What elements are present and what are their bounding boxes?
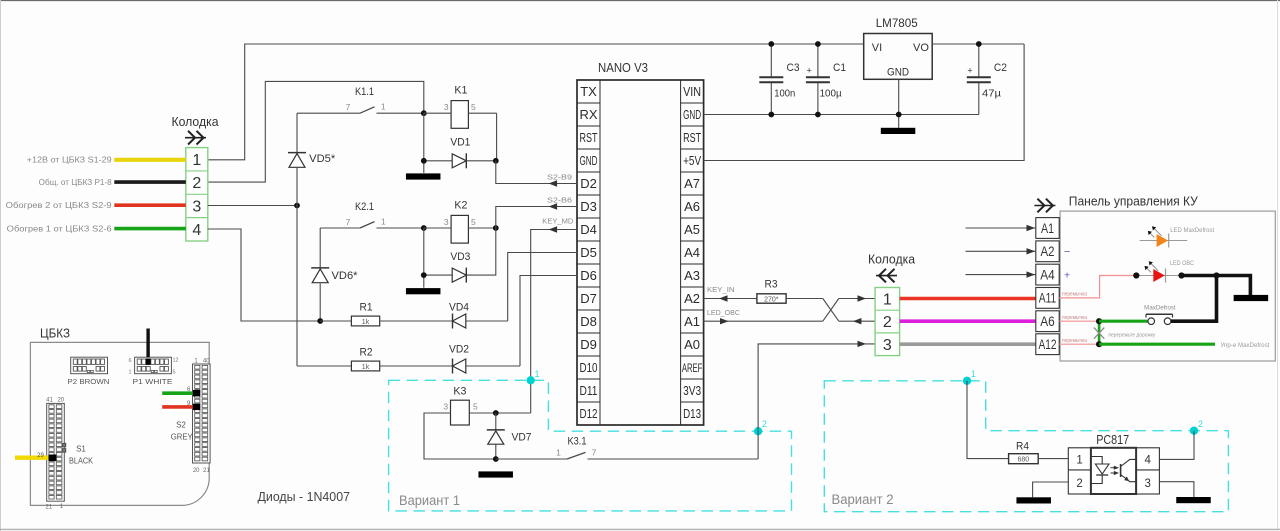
svg-text:3V3: 3V3: [683, 383, 701, 398]
svg-text:A11: A11: [1039, 290, 1057, 306]
wire grey pin3 to A12: [900, 342, 1036, 346]
svg-text:2: 2: [1076, 478, 1082, 490]
svg-text:3: 3: [444, 102, 449, 112]
svg-text:7: 7: [346, 217, 351, 227]
svg-text:Упр-е MaxDefrost: Упр-е MaxDefrost: [1220, 343, 1269, 349]
label plus at A4: [1064, 269, 1070, 281]
svg-text:K3.1: K3.1: [568, 436, 587, 448]
svg-text:Диоды - 1N4007: Диоды - 1N4007: [258, 490, 351, 504]
svg-text:Вариант 1: Вариант 1: [399, 493, 460, 508]
svg-text:4: 4: [1144, 454, 1151, 466]
svg-text:LED OBC: LED OBC: [1170, 261, 1195, 267]
svg-text:перемычка: перемычка: [1062, 315, 1087, 321]
svg-text:PC817: PC817: [1096, 433, 1129, 447]
svg-text:R1: R1: [360, 301, 373, 313]
svg-text:D7: D7: [580, 291, 597, 306]
wire R2 row: [297, 365, 351, 367]
svg-text:GREY: GREY: [171, 433, 194, 442]
wire black switch to LED node: [1171, 276, 1217, 322]
svg-text:Панель управления КУ: Панель управления КУ: [1069, 194, 1199, 209]
connector X1 Kolodka (left): [172, 114, 220, 241]
diode VD4: [449, 301, 508, 328]
svg-text:270*: 270*: [764, 296, 779, 303]
wire PC817 pin2 to ground: [1033, 482, 1069, 497]
svg-text:Колодка: Колодка: [172, 114, 220, 129]
connector S1 BLACK: [45, 398, 93, 511]
dashed box Variant 2: [824, 381, 1228, 512]
relay coil K1: [424, 85, 497, 129]
svg-text:680: 680: [1017, 457, 1029, 464]
ground in panel: [1234, 295, 1269, 301]
svg-text:D12: D12: [580, 406, 598, 421]
svg-text:A2: A2: [684, 291, 700, 306]
wire green A6 to switch: [1099, 320, 1148, 323]
connector S2 GREY: [171, 358, 211, 474]
connector P2 BROWN: [68, 357, 110, 386]
variant node 1 (right): [963, 369, 976, 385]
label Obsh wire: [39, 178, 113, 187]
node K1 coil top junction: [421, 110, 427, 116]
ground under VD7: [478, 471, 513, 477]
svg-text:VIN: VIN: [683, 84, 701, 99]
svg-text:1: 1: [1076, 454, 1082, 466]
svg-text:5: 5: [173, 370, 176, 376]
svg-text:1: 1: [971, 369, 976, 379]
TsBKE box: [30, 342, 209, 505]
svg-text:1: 1: [534, 369, 539, 379]
node A6 jumper junction: [1096, 318, 1102, 324]
wire red pin1 to A11: [900, 297, 1036, 301]
svg-text:Обогрев 1 от ЦБКЗ S2-6: Обогрев 1 от ЦБКЗ S2-6: [7, 224, 113, 233]
svg-text:C1: C1: [833, 62, 846, 74]
optocoupler U3 PC817: [1068, 433, 1159, 494]
wire pin3 to VD5 node: [208, 205, 297, 207]
svg-text:VD5*: VD5*: [309, 153, 336, 165]
svg-text:D9: D9: [580, 337, 597, 352]
diode VD6*: [311, 268, 358, 283]
svg-text:VD4: VD4: [449, 301, 469, 313]
svg-text:ЦБКЗ: ЦБКЗ: [40, 326, 70, 341]
switch contact K2.1: [320, 201, 424, 228]
wire D5 net: [508, 253, 577, 322]
capacitor C3 100n: [759, 44, 799, 115]
svg-text:R3: R3: [765, 278, 778, 290]
wire cross to pin2: [839, 318, 875, 324]
diode VD1: [424, 137, 497, 169]
svg-text:BLACK: BLACK: [69, 457, 94, 466]
svg-text:Колодка: Колодка: [868, 252, 916, 267]
wire K1 pin5 down: [496, 113, 498, 161]
svg-text:перемычка: перемычка: [1062, 292, 1087, 298]
harness chevron right Kolodka: [876, 269, 897, 283]
wire LM7805 GND lead: [898, 79, 900, 128]
svg-text:D10: D10: [580, 360, 598, 375]
wire K1 gnd vertical: [423, 113, 425, 173]
svg-text:1: 1: [556, 448, 561, 458]
node K2 coil top junction: [421, 225, 427, 231]
svg-text:S1: S1: [76, 445, 86, 454]
wire arrow into A2: [966, 248, 1036, 254]
wire D2 net S2-B9: [496, 161, 577, 187]
svg-text:2: 2: [883, 314, 892, 331]
ground under PC817 pin3: [1176, 497, 1211, 503]
wire jumper A6: [1059, 320, 1099, 322]
svg-text:A5: A5: [684, 222, 700, 237]
wire black common: [114, 180, 186, 184]
svg-text:KEY_IN: KEY_IN: [707, 285, 735, 294]
svg-text:4: 4: [192, 222, 201, 239]
svg-text:LED MaxDefrost: LED MaxDefrost: [1170, 228, 1214, 234]
svg-text:3: 3: [192, 199, 201, 216]
wire red Obogrev2: [114, 203, 186, 207]
svg-text:3: 3: [883, 337, 892, 354]
svg-text:D4: D4: [580, 222, 597, 237]
label peremychka A12: [1062, 338, 1087, 344]
svg-text:D8: D8: [580, 314, 597, 329]
relay coil K3: [443, 386, 530, 425]
dashed box Variant 1: [389, 380, 792, 511]
wire green link A6-A12: [1098, 321, 1101, 344]
wire yellow to S1 pin29: [15, 453, 57, 461]
svg-text:C2: C2: [994, 62, 1007, 74]
svg-text:K2: K2: [454, 200, 467, 212]
node R1/VD6 junction: [317, 318, 323, 324]
svg-text:+: +: [967, 66, 972, 76]
svg-text:VD7: VD7: [512, 432, 532, 444]
svg-text:20: 20: [193, 468, 200, 474]
svg-text:S2-B9: S2-B9: [547, 173, 572, 182]
svg-text:A1: A1: [1041, 220, 1054, 236]
diode VD5*: [288, 153, 336, 168]
svg-text:P2 BROWN: P2 BROWN: [68, 377, 110, 386]
svg-text:20: 20: [57, 398, 64, 404]
ground under K1: [406, 173, 441, 179]
svg-text:5: 5: [473, 402, 478, 412]
variant node 2 (left): [754, 419, 767, 435]
wire +12V from Kolodka pin1 to LM7805 VI: [208, 44, 864, 160]
LED MaxDefrost indicator: [1140, 226, 1215, 247]
wire GND rail NANO to caps: [704, 114, 979, 116]
svg-text:A4: A4: [684, 245, 700, 260]
svg-text:A6: A6: [1040, 313, 1055, 329]
svg-text:3: 3: [444, 217, 449, 227]
svg-text:+: +: [1064, 269, 1070, 281]
svg-text:21: 21: [45, 505, 52, 511]
diode VD3: [424, 251, 471, 283]
svg-text:LM7805: LM7805: [876, 16, 918, 30]
wire pin4 to R1 row: [208, 229, 320, 321]
label +12V wire: [27, 156, 113, 165]
microcontroller U1 NANO V3: [577, 60, 704, 425]
wire cross to pin1: [839, 295, 875, 301]
svg-text:Вариант 2: Вариант 2: [832, 492, 894, 507]
svg-text:K1.1: K1.1: [355, 86, 374, 98]
cut mark X: [1094, 328, 1156, 339]
svg-text:перережьте дорожку: перережьте дорожку: [1108, 332, 1155, 338]
node K2 pin5 junction: [493, 225, 499, 231]
wire arrow into A4: [966, 271, 1036, 277]
svg-text:A4: A4: [1040, 266, 1055, 282]
svg-text:VD2: VD2: [449, 344, 469, 356]
connector X2 Kolodka (right): [868, 252, 916, 356]
wire jumper A12: [1059, 343, 1099, 345]
svg-text:S2-B6: S2-B6: [547, 196, 572, 205]
node LED OBC anode: [1133, 272, 1139, 278]
svg-text:A0: A0: [684, 337, 700, 352]
svg-text:VO: VO: [913, 42, 929, 54]
node VD1 anode: [421, 158, 427, 164]
svg-text:MaxDefrost: MaxDefrost: [1144, 306, 1176, 312]
svg-text:1: 1: [128, 370, 131, 376]
svg-text:40: 40: [203, 358, 210, 364]
svg-text:VD3: VD3: [450, 251, 470, 263]
svg-text:100n: 100n: [774, 89, 795, 100]
svg-text:2: 2: [1198, 419, 1203, 429]
svg-text:1: 1: [381, 102, 386, 112]
ground under PC817 pin2: [1016, 497, 1050, 503]
svg-text:+12В от ЦБКЗ S1-29: +12В от ЦБКЗ S1-29: [27, 156, 113, 165]
resistor R3: [757, 278, 823, 303]
svg-text:21: 21: [203, 468, 210, 474]
label peremychka A6: [1062, 315, 1087, 321]
svg-text:KEY_MD: KEY_MD: [542, 216, 574, 225]
svg-text:A6: A6: [684, 199, 700, 214]
svg-text:A3: A3: [684, 268, 700, 283]
wire yellow +12V: [114, 158, 186, 162]
switch contact K1.1: [297, 86, 424, 113]
svg-text:+: +: [807, 66, 812, 76]
svg-text:7: 7: [592, 448, 597, 458]
svg-text:41: 41: [46, 398, 53, 404]
svg-text:VD1: VD1: [450, 137, 470, 149]
node A12 jumper junction: [1096, 341, 1102, 347]
wire green Obogrev1: [114, 227, 186, 231]
svg-text:D11: D11: [580, 383, 598, 398]
node K3 pin5 junction: [493, 410, 499, 416]
wire magenta pin2 to A6: [900, 319, 1036, 323]
svg-text:100µ: 100µ: [820, 89, 842, 100]
label Obogrev2 wire: [6, 201, 113, 210]
svg-text:5: 5: [471, 217, 476, 227]
svg-text:5: 5: [471, 102, 476, 112]
svg-text:47µ: 47µ: [982, 89, 1001, 100]
svg-text:A2: A2: [1041, 243, 1055, 259]
panel pin boxes A1-A12: [1036, 218, 1059, 355]
wire PC817 pin4 to node2: [1159, 431, 1194, 460]
svg-text:R4: R4: [1016, 441, 1029, 453]
wire red to S2 pin9: [162, 404, 200, 410]
label diodes note: [258, 490, 351, 504]
wire jumper A11 to LED: [1059, 276, 1136, 298]
node black wire T junction: [1178, 272, 1219, 278]
svg-text:D13: D13: [683, 406, 701, 421]
svg-text:K1: K1: [454, 85, 467, 97]
svg-text:GND: GND: [580, 153, 598, 168]
wire D4 net KEY_MD: [531, 216, 577, 413]
node VD3 anode: [421, 272, 427, 278]
svg-text:RX: RX: [579, 107, 597, 122]
svg-text:D2: D2: [580, 176, 597, 191]
svg-text:GND: GND: [887, 67, 909, 79]
diode VD2: [449, 344, 520, 374]
svg-text:D5: D5: [580, 245, 597, 260]
svg-text:1k: 1k: [362, 319, 370, 326]
ground under K2: [406, 288, 441, 294]
switch contact K3.1: [496, 436, 758, 460]
node VD1 cathode: [493, 158, 499, 164]
label peremychka A11: [1062, 292, 1087, 298]
svg-text:RST: RST: [580, 130, 598, 145]
wire PC817 pin3 to ground: [1159, 482, 1194, 497]
node pin3/VD5 junction: [294, 203, 300, 209]
switch MaxDefrost button: [1144, 306, 1176, 325]
svg-text:29: 29: [37, 453, 44, 459]
wire D3 net S2-B6: [496, 196, 577, 229]
wire green to S2 pin6: [162, 390, 200, 396]
panel box Panel upravleniya KU: [1060, 194, 1275, 362]
wire LED_OBC from A1: [704, 308, 823, 325]
wire black LED OBC to ground: [1182, 276, 1251, 296]
wire green A12 Upr-e MaxDefrost: [1099, 343, 1270, 349]
svg-text:+5V: +5V: [683, 153, 701, 168]
svg-text:S2: S2: [176, 421, 186, 430]
svg-text:LED_OBC: LED_OBC: [707, 308, 741, 317]
svg-text:3: 3: [1144, 478, 1150, 490]
svg-text:NANO V3: NANO V3: [598, 60, 648, 75]
svg-text:1: 1: [192, 152, 201, 169]
svg-text:TX: TX: [580, 84, 597, 99]
svg-text:1k: 1k: [362, 364, 370, 371]
capacitor C1 100u: [806, 44, 846, 115]
svg-text:A12: A12: [1039, 336, 1057, 352]
harness chevron left Kolodka: [185, 131, 206, 145]
svg-text:12: 12: [173, 358, 179, 364]
junction dots power rails: [768, 41, 981, 117]
svg-text:C3: C3: [787, 62, 800, 74]
svg-text:7: 7: [346, 102, 351, 112]
ground under LM7805: [881, 128, 916, 134]
wire D6 net: [520, 276, 577, 367]
label TsBKE: [40, 326, 70, 341]
svg-text:D3: D3: [580, 199, 597, 214]
LED OBC indicator: [1136, 261, 1194, 283]
svg-text:6: 6: [128, 358, 131, 364]
wire VD6 branch vertical: [319, 228, 321, 321]
wire VD5 branch vertical: [296, 113, 298, 366]
svg-text:1: 1: [381, 216, 386, 226]
svg-text:Обогрев 2 от ЦБКЗ S2-9: Обогрев 2 от ЦБКЗ S2-9: [6, 201, 113, 210]
wire arrow into A1: [966, 225, 1036, 231]
svg-text:K3: K3: [453, 386, 466, 398]
svg-text:P1 WHITE: P1 WHITE: [133, 377, 173, 386]
wire crossover X: [823, 299, 839, 322]
harness chevron panel: [1034, 199, 1055, 213]
variant node 1 (left): [527, 369, 540, 384]
label Obogrev1 wire: [7, 224, 113, 233]
variant node 2 (right): [1190, 419, 1203, 435]
wire black to P1 pin8: [146, 329, 149, 358]
wire K3.1 to Kolodka pin3: [758, 341, 875, 459]
regulator U2 LM7805: [864, 16, 933, 79]
wire KEY_IN from A2: [704, 285, 757, 302]
resistor R1: [320, 301, 452, 326]
svg-text:A7: A7: [684, 176, 700, 191]
wire K2 gnd vertical: [423, 228, 425, 288]
svg-text:R2: R2: [360, 346, 373, 358]
connector P1 WHITE: [128, 352, 178, 387]
wire K3 pin3 loop: [424, 413, 496, 459]
node VD7 bottom junction: [493, 456, 499, 462]
svg-text:3: 3: [443, 402, 448, 412]
svg-text:2: 2: [762, 419, 767, 429]
svg-text:VI: VI: [872, 42, 882, 54]
svg-text:AREF: AREF: [682, 363, 703, 375]
resistor R4: [1009, 441, 1069, 464]
svg-text:−: −: [1064, 246, 1070, 258]
wire node1 to R4: [967, 381, 1009, 459]
label minus at A2: [1064, 246, 1070, 258]
svg-text:GND: GND: [683, 107, 701, 122]
svg-text:D6: D6: [580, 268, 597, 283]
svg-text:1: 1: [883, 292, 892, 309]
svg-text:A1: A1: [684, 314, 700, 329]
svg-text:RST: RST: [683, 130, 701, 145]
svg-text:K2.1: K2.1: [355, 201, 374, 213]
wire K2 pin5 down to VD3: [466, 228, 496, 275]
svg-text:VD6*: VD6*: [332, 270, 359, 282]
diode VD7: [487, 413, 532, 459]
svg-text:Общ. от ЦБКЗ P1-8: Общ. от ЦБКЗ P1-8: [39, 178, 113, 187]
relay coil K2: [424, 200, 496, 244]
resistor R2: [351, 346, 452, 371]
wire ground pin2 riser to K1 node: [208, 81, 424, 182]
svg-text:перемычка: перемычка: [1062, 338, 1087, 344]
capacitor C2 47u: [967, 44, 1007, 115]
wire LM7805 VO to +5V pin of NANO: [704, 44, 1025, 161]
svg-text:2: 2: [192, 175, 201, 192]
